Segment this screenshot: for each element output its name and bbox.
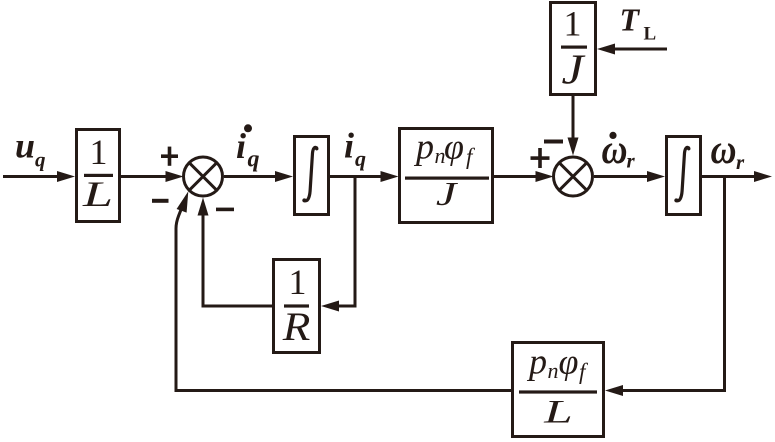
svg-text:1: 1	[564, 4, 582, 44]
svg-text:T: T	[620, 2, 641, 38]
svg-text:q: q	[35, 148, 46, 172]
svg-text:φ: φ	[444, 127, 464, 167]
svg-text:n: n	[548, 358, 559, 383]
svg-text:J: J	[562, 46, 587, 93]
svg-text:q: q	[355, 146, 366, 171]
svg-text:L: L	[543, 394, 573, 430]
svg-text:p: p	[413, 127, 434, 167]
svg-text:r: r	[627, 149, 636, 173]
svg-text:u: u	[15, 126, 35, 166]
svg-text:f: f	[466, 144, 476, 169]
svg-text:L: L	[644, 24, 657, 45]
svg-text:J: J	[436, 175, 459, 213]
svg-text:L: L	[82, 174, 113, 214]
svg-text:q: q	[248, 147, 260, 173]
svg-text:φ: φ	[559, 342, 579, 382]
svg-text:1: 1	[90, 132, 108, 172]
svg-text:p: p	[526, 342, 547, 382]
svg-text:ω: ω	[602, 125, 628, 172]
svg-text:i: i	[344, 126, 354, 166]
svg-text:f: f	[579, 359, 589, 384]
svg-text:r: r	[736, 150, 745, 174]
svg-text:i: i	[236, 126, 246, 166]
svg-text:R: R	[282, 305, 311, 349]
svg-text:1: 1	[289, 262, 307, 302]
svg-text:ω: ω	[711, 125, 737, 172]
